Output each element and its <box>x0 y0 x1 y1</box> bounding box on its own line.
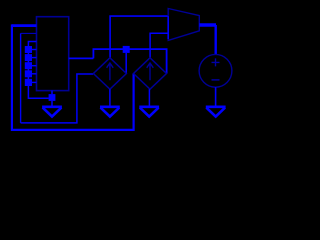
wire bus corner to block pin (36.5,41.5) <box>28 42 48 99</box>
junction square A on rail <box>123 46 130 53</box>
wire G2 bottom to ground GND2 <box>148 89 150 106</box>
wire source V bottom to ground GND3 <box>215 87 217 106</box>
buffer amplifier E1 (trapezoid) <box>168 9 199 41</box>
wire net N3: diamond G2 top up, right to buffer lower input <box>150 33 168 58</box>
wire net VEE bottom run to diamond G1 left vertex <box>21 74 94 123</box>
pin square P3 <box>25 62 32 69</box>
minus sign <box>212 79 220 81</box>
ground GND3 <box>206 107 226 117</box>
pin square P2 <box>25 54 32 61</box>
block U1 (subcircuit rectangle) <box>37 17 69 91</box>
junction square B (below block) <box>49 94 56 101</box>
pin stub P5 <box>32 81 37 83</box>
pin square P4 <box>25 70 32 77</box>
pin stub P1 <box>32 49 37 51</box>
ground GND2 <box>139 107 159 117</box>
plus sign <box>212 58 220 66</box>
ground GND1 <box>100 107 120 117</box>
wire net VEE horizontal from block pin (36.5,33.4) <box>21 32 37 34</box>
pin stub P4 <box>32 73 37 75</box>
wire net N2: block right pin to y=49.1 rail, to diamond G2 right vertex <box>69 57 94 59</box>
wire square B to ground GND0 <box>51 101 53 106</box>
arrow in G1 <box>107 63 114 80</box>
pin square P1 <box>25 46 32 53</box>
wire G1 bottom to ground GND1 <box>109 89 111 106</box>
diamond source G2 <box>134 58 167 89</box>
wire net VCC thick: block pin (36.5,25.6) left, down, bottom, up to diamond G2 left vertex <box>12 24 37 27</box>
wire net VEE vertical down <box>20 33 22 123</box>
pin stub P2 <box>32 57 37 59</box>
wire bright segment on buffer left edge between inputs <box>167 16 169 39</box>
wire net N1: diamond G1 top up, right to buffer upper input <box>110 16 168 58</box>
pin stub P3 <box>32 65 37 67</box>
wire square A down to diamond G1 right vertex <box>125 53 127 74</box>
output wire thick: buffer out right then down to source V top <box>199 23 216 26</box>
pin square P5 <box>25 79 32 86</box>
ground GND0 <box>42 107 62 117</box>
voltage source V1 (circle) <box>199 54 232 87</box>
arrow in G2 <box>147 63 154 80</box>
diamond source G1 <box>93 58 126 89</box>
wire block bottom pin to square B <box>51 91 53 95</box>
